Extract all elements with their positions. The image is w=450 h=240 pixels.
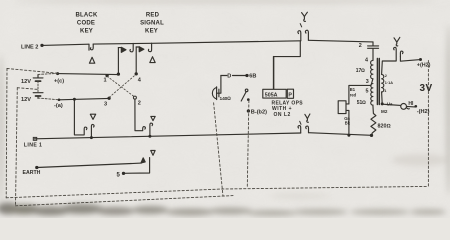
svg-text:red: red (350, 93, 357, 98)
svg-text:B-(b2): B-(b2) (251, 110, 267, 116)
svg-text:Ua: Ua (387, 101, 393, 106)
svg-text:LINE 2: LINE 2 (21, 45, 38, 51)
svg-text:CODE: CODE (77, 21, 95, 27)
svg-text:5: 5 (366, 89, 369, 95)
svg-text:12V: 12V (21, 97, 31, 103)
svg-text:1·1A: 1·1A (385, 81, 393, 85)
svg-text:51Ω: 51Ω (357, 100, 366, 106)
svg-text:6B: 6B (249, 73, 256, 79)
svg-text:ON L2: ON L2 (274, 112, 291, 118)
svg-text:LINE 1: LINE 1 (24, 143, 43, 149)
svg-text:-(H2): -(H2) (417, 109, 430, 115)
svg-text:2: 2 (359, 43, 362, 49)
svg-text:P: P (288, 92, 292, 98)
svg-text:3V: 3V (420, 83, 433, 94)
svg-text:EARTH: EARTH (23, 170, 41, 176)
svg-text:HI: HI (408, 101, 414, 107)
svg-text:SIGNAL: SIGNAL (140, 21, 164, 27)
svg-text:RED: RED (146, 13, 160, 19)
svg-text:-(a): -(a) (54, 103, 63, 109)
svg-text:1: 1 (104, 77, 107, 83)
svg-text:140Ω: 140Ω (220, 96, 232, 102)
svg-text:2: 2 (138, 100, 141, 106)
svg-text:12V: 12V (21, 79, 31, 85)
svg-text:KEY: KEY (80, 29, 93, 35)
svg-text:3: 3 (104, 101, 107, 107)
svg-text:1: 1 (384, 89, 386, 93)
svg-text:+(H2): +(H2) (417, 63, 431, 69)
svg-text:3: 3 (366, 79, 369, 85)
svg-text:+(c): +(c) (54, 78, 64, 84)
svg-text:2: 2 (385, 74, 387, 78)
svg-text:M2: M2 (381, 109, 388, 114)
svg-text:820Ω: 820Ω (378, 124, 391, 130)
svg-text:BLACK: BLACK (76, 13, 98, 19)
svg-text:4: 4 (365, 57, 368, 63)
svg-text:505A: 505A (265, 92, 278, 98)
svg-text:Bk: Bk (345, 121, 351, 126)
svg-text:B1: B1 (350, 87, 356, 92)
svg-text:17Ω: 17Ω (356, 68, 365, 74)
svg-text:D: D (227, 74, 231, 80)
svg-text:KEY: KEY (145, 29, 158, 35)
